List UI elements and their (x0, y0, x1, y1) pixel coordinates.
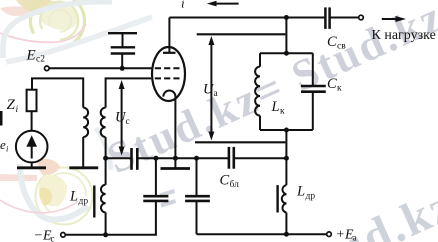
svg-text:др: др (306, 192, 316, 202)
tube V1 envelope (152, 47, 185, 101)
svg-text:с: с (51, 234, 55, 242)
label Ck (327, 76, 342, 94)
Ua reference bar bottom (195, 141, 285, 143)
node K: tank bottom (284, 128, 289, 133)
svg-text:C: C (220, 173, 230, 189)
wire anode rail (169, 17, 324, 19)
inductor secondary winding (101, 108, 106, 137)
svg-text:св: св (337, 42, 346, 52)
svg-text:+E: +E (336, 228, 354, 242)
wire tank bottom to node H (285, 130, 287, 158)
terminal +Ea (327, 232, 332, 237)
node J: tank top (284, 51, 289, 56)
label Csv (327, 34, 346, 52)
svg-text:C: C (327, 76, 337, 92)
wire secondary to node B (105, 137, 107, 158)
svg-text:Z: Z (7, 97, 16, 113)
arrow to load (382, 16, 406, 22)
capacitor Cbl (229, 147, 234, 169)
wire Cbl to node H (234, 157, 286, 159)
terminal output (359, 15, 364, 20)
terminal -Ec (61, 233, 66, 238)
watermark equals bottom-left-of-center (160, 189, 177, 208)
svg-text:L: L (296, 184, 305, 200)
ground cathode (161, 158, 191, 168)
svg-text:др: др (79, 197, 89, 207)
label Zi (7, 97, 19, 115)
label Cbl (220, 173, 240, 191)
source ei arrow (26, 135, 37, 158)
label K nagruzke (372, 28, 436, 43)
inductor primary winding (83, 108, 88, 137)
capacitor Ck (301, 53, 326, 130)
tank top wire (260, 52, 313, 54)
label ei (0, 137, 9, 154)
capacitor grid-block (left shunt) (143, 158, 168, 201)
capacitor bypass (screen) (108, 33, 137, 68)
svg-text:К нагрузке: К нагрузке (372, 28, 436, 43)
wire +Ea rail (197, 233, 327, 235)
ground under ei (17, 166, 46, 169)
label Ua (203, 82, 219, 100)
wire source to ground (31, 162, 33, 167)
wire Zi to source (31, 111, 33, 131)
wire control-grid: secondary to tube (106, 78, 151, 107)
capacitor anode-block (right shunt) (185, 158, 210, 234)
node H (284, 156, 289, 161)
tube anode (163, 18, 176, 53)
label Lk (271, 99, 286, 117)
tube cathode (163, 91, 175, 159)
svg-text:C: C (327, 34, 337, 50)
Ua reference bar top (197, 33, 286, 35)
label Ec2 (26, 48, 46, 65)
inductor Ldr right choke (278, 158, 287, 234)
label Uc (115, 110, 130, 128)
tube screen grid dashes (155, 67, 180, 69)
svg-text:L: L (69, 189, 78, 205)
arrow Uc (119, 80, 125, 156)
svg-text:L: L (271, 99, 280, 115)
tube control grid dashes (155, 77, 180, 79)
label Ldr right (296, 184, 315, 202)
inductor Lk (255, 53, 260, 130)
ground under primary (69, 166, 98, 169)
svg-text:i: i (181, 0, 185, 11)
watermark logo bottom-left (0, 128, 111, 225)
svg-text:i: i (16, 105, 19, 115)
source ei circle (16, 131, 48, 163)
node I (284, 15, 289, 20)
node F (194, 156, 199, 161)
arrow Ua (208, 36, 214, 141)
label +Ea (336, 228, 357, 242)
capacitor Csv (325, 7, 358, 29)
black scan artifact left edge (0, 111, 3, 126)
watermark logo top-left (0, 0, 152, 62)
svg-text:к: к (280, 107, 285, 117)
wire cathode bus 2 (137, 157, 228, 159)
node G (284, 232, 289, 237)
wire primary to ground (82, 137, 84, 168)
arrow current i (207, 1, 239, 7)
resistor Zi box (27, 90, 37, 112)
capacitor series grid (132, 148, 138, 170)
svg-text:с: с (126, 117, 130, 127)
node D (153, 156, 158, 161)
wire anode to tank (285, 18, 287, 54)
label i (181, 0, 185, 11)
svg-text:к: к (337, 84, 342, 94)
inductor Ldr left choke (94, 158, 105, 235)
node C: -Ec junction (103, 232, 108, 237)
wire -Ec rail (65, 201, 156, 235)
terminal Ec2 (45, 66, 50, 71)
label -Ec (34, 229, 55, 242)
svg-text:с2: с2 (36, 55, 45, 65)
svg-text:E: E (26, 48, 36, 64)
wire cathode bus (106, 157, 132, 159)
tank bottom wire (260, 129, 313, 131)
node A: junction grid wire / bypass cap (120, 66, 125, 71)
wire screen-grid: Ec2 terminal to tube (49, 67, 152, 69)
label Ldr left (69, 189, 88, 207)
node B (103, 156, 108, 161)
svg-text:−E: −E (34, 229, 52, 242)
node E: cathode (173, 156, 178, 161)
svg-text:а: а (353, 233, 357, 242)
svg-text:бл: бл (230, 179, 240, 190)
wire input top: Zi to primary coil (32, 78, 83, 107)
